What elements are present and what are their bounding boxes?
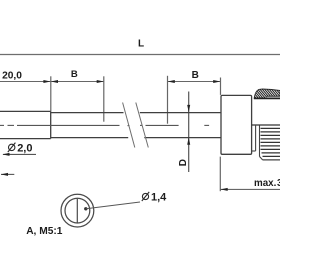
thread stripes [261,128,281,156]
cap base thick line [254,97,280,99]
svg-text:20,0: 20,0 [2,71,22,82]
extension line x=103.7 [103,76,105,121]
arrow left at 50.7 (B dim) [51,80,58,83]
arrowhead left [1,173,8,176]
leader line to 1,4 label [86,202,140,209]
shaft tip top edge [0,110,51,112]
arrow right at 220.5 (B dim) [213,80,220,83]
shaft tip bottom edge [0,138,51,140]
svg-text:L: L [138,38,144,49]
knurl band bottom edge right part [267,95,281,97]
dimension line B left [51,81,104,83]
break slash 2 [136,103,149,148]
extension line x=220.5 [220,78,222,95]
leader line for 2,0 [3,153,36,155]
svg-text:B: B [71,69,78,80]
detail A slot line [76,199,78,223]
max dimension line [220,188,280,190]
shaft main bottom edge (right of break) [144,137,221,139]
diameter 2,0 symbol [9,144,15,150]
max dimension extension line [219,157,221,192]
thread chamfer [260,157,263,160]
D arrow up, tip at bottom edge [187,137,190,144]
svg-text:3: 3 [277,178,280,189]
centerline segments [0,124,252,127]
D arrow down, tip at top edge [187,105,190,112]
svg-text:B: B [192,70,199,81]
thread neck bottom jog [252,150,256,152]
svg-text:1,4: 1,4 [151,192,167,204]
svg-text:2,0: 2,0 [17,142,32,154]
svg-text:D: D [178,159,189,166]
white gap under knurl band right part [267,96,281,98]
arrow right at 103.7 (B dim) [97,80,104,83]
dimension line B right [167,81,220,83]
detail A inner circle [65,198,90,223]
extension line x=167.4 [167,76,169,124]
D dimension line through shaft [188,92,190,173]
extension line x=50.7 [50,76,52,111]
svg-text:max.: max. [254,178,277,189]
thread left face [255,125,257,151]
leader dot [84,207,87,210]
flange of head [221,95,252,154]
shaft main top edge (right of break) [140,112,221,114]
arrow left at 167.4 (B dim) [168,80,175,83]
cap/thread separator line [252,124,280,126]
arrow left leader 2,0 [2,153,9,156]
knurl hatch lines [242,87,290,100]
svg-text:A, M5:1: A, M5:1 [26,226,63,237]
shaft main bottom edge (left of break) [51,137,129,139]
detail A outer circle [61,194,94,227]
break slash 1 [123,103,135,148]
dimension line L [0,54,280,56]
arrow left at 220.3 (max dim) [221,188,228,191]
thread minor line [259,126,261,157]
shaft step edge at x=50.7 [50,111,52,138]
thread bottom edge [263,159,281,161]
arrow pointer left at tip [1,173,14,175]
diameter 1,4 symbol [142,193,148,199]
shaft main top edge (left of break) [51,112,124,114]
dimension line 20,0 [0,81,51,83]
knurled dome [254,89,280,98]
arrow right at 50.7 (20,0 dim) [43,80,50,83]
